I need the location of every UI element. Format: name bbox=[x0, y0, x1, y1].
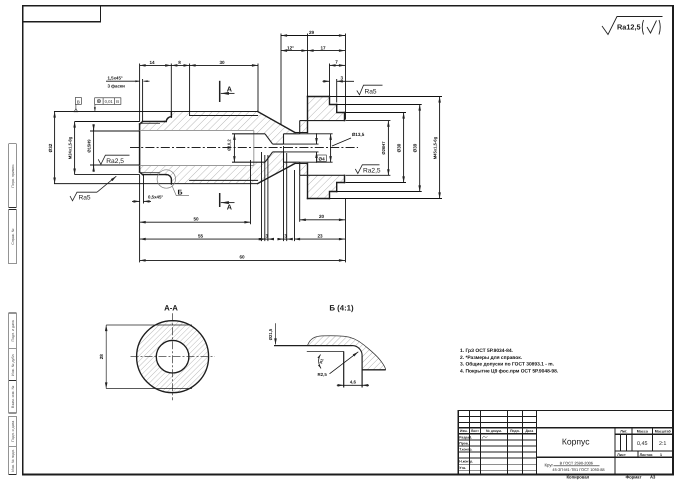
roughness Ra5 left bottom bbox=[70, 176, 116, 201]
datum symbol B bbox=[74, 98, 81, 112]
svg-text:Ø10,2: Ø10,2 bbox=[227, 139, 232, 151]
detail B groove left wall bbox=[343, 351, 345, 387]
svg-text:29: 29 bbox=[309, 30, 315, 35]
groove corner top bbox=[165, 112, 172, 122]
thread OD top bbox=[143, 121, 165, 123]
thread root lines bbox=[140, 124, 160, 173]
svg-text:Ra12,5: Ra12,5 bbox=[617, 23, 641, 32]
detail B hatch region bbox=[308, 336, 386, 370]
dim D15H9 bbox=[93, 124, 95, 171]
svg-text:№ докум.: № докум. bbox=[486, 429, 502, 433]
svg-text:60: 60 bbox=[239, 255, 245, 260]
dim 55 bbox=[140, 238, 266, 240]
svg-text:Подп.: Подп. bbox=[510, 429, 520, 433]
section arrow A top bbox=[220, 81, 235, 102]
left extension lines bbox=[75, 121, 140, 123]
detail B circle bbox=[157, 170, 175, 188]
dimension labels bbox=[48, 30, 438, 260]
cylinder 32 top edge bbox=[55, 111, 258, 113]
svg-text:Ø39: Ø39 bbox=[412, 143, 417, 152]
roughness Ra2,5 right bbox=[355, 165, 379, 174]
title block texts bbox=[460, 429, 533, 433]
section A-A inner circle bbox=[156, 340, 189, 373]
dim 0,5x45 bbox=[132, 200, 140, 202]
dim 14 bbox=[140, 64, 172, 66]
dim D4 bbox=[316, 133, 318, 144]
hole d13.5 bbox=[284, 133, 300, 135]
svg-text:А: А bbox=[227, 202, 232, 211]
svg-text:Ra5: Ra5 bbox=[79, 195, 91, 202]
dim D39 bbox=[419, 105, 421, 192]
section A-A outer circle bbox=[137, 321, 209, 393]
right extension lines bbox=[346, 120, 391, 122]
svg-text:14: 14 bbox=[149, 60, 155, 65]
dim 3 bottom a bbox=[265, 238, 268, 240]
right end face bottom bbox=[344, 175, 346, 182]
flange left face top bbox=[307, 97, 309, 133]
detail B thread root line bbox=[307, 350, 344, 352]
svg-text:Ø26Н7: Ø26Н7 bbox=[381, 141, 386, 155]
svg-text:Взам. инв. №: Взам. инв. № bbox=[11, 386, 15, 408]
step 30 bottom bbox=[337, 183, 345, 192]
svg-text:Подп. и дата: Подп. и дата bbox=[11, 320, 15, 341]
svg-text:Ra2,5: Ra2,5 bbox=[106, 158, 124, 165]
svg-text:45-3П-М1-ТВ1 ГОСТ 1050-88: 45-3П-М1-ТВ1 ГОСТ 1050-88 bbox=[552, 467, 604, 472]
svg-text:Масштаб: Масштаб bbox=[655, 429, 672, 433]
dim 7 (outside arrows) bbox=[330, 64, 346, 66]
section A-A dim 28 bbox=[106, 325, 192, 389]
svg-text:Ø21,5: Ø21,5 bbox=[268, 328, 273, 340]
svg-text:R2,5: R2,5 bbox=[318, 372, 328, 377]
section A-A hatch annulus bbox=[137, 321, 209, 393]
left end face bbox=[139, 124, 141, 172]
step 30 top bbox=[337, 105, 345, 113]
svg-text:А: А bbox=[227, 85, 232, 94]
hatch bottom half bbox=[140, 152, 345, 199]
svg-text:Масса: Масса bbox=[637, 429, 649, 433]
svg-text:В: В bbox=[116, 99, 119, 104]
svg-text:3: 3 bbox=[284, 233, 287, 238]
cone bottom bbox=[258, 164, 295, 184]
groove corner bottom bbox=[166, 175, 171, 184]
outer profile (visible edges) bbox=[55, 97, 345, 199]
svg-text:Б: Б bbox=[178, 190, 183, 197]
svg-text:3: 3 bbox=[341, 76, 344, 81]
dim 3 right top (outside arrows) bbox=[323, 80, 330, 82]
svg-text:4,6: 4,6 bbox=[350, 379, 357, 384]
dim D10,2 bbox=[233, 134, 235, 162]
svg-text:Ø4: Ø4 bbox=[319, 156, 326, 161]
svg-text:Т.контр.: Т.контр. bbox=[459, 448, 472, 452]
step 39 bottom bbox=[330, 192, 337, 199]
svg-text:8: 8 bbox=[178, 60, 181, 65]
dim 29 bbox=[281, 35, 345, 37]
chamfer labels bbox=[108, 75, 164, 199]
svg-text:Утв.: Утв. bbox=[459, 466, 466, 470]
svg-text:М45х1,5-6g: М45х1,5-6g bbox=[433, 136, 438, 159]
counterbore d26 bbox=[300, 120, 345, 122]
svg-text:Разраб.: Разраб. bbox=[459, 435, 472, 439]
svg-text:Ø32: Ø32 bbox=[48, 143, 53, 152]
svg-text:Пров.: Пров. bbox=[459, 441, 469, 445]
svg-text:0,5х45°: 0,5х45° bbox=[148, 195, 163, 200]
d13.5 extension bbox=[300, 133, 333, 135]
dim D30 bbox=[403, 113, 405, 183]
dim D32 bbox=[54, 112, 56, 184]
cylinder 32 bottom edge bbox=[55, 183, 258, 185]
detail B dim 4,6 bbox=[337, 384, 369, 386]
svg-text:3: 3 bbox=[266, 233, 269, 238]
detail B radius R2,5 leader bbox=[330, 352, 359, 374]
section arrow A bottom bbox=[220, 193, 235, 207]
flat line top bbox=[190, 115, 258, 117]
dim 8 bbox=[171, 64, 189, 66]
svg-text:17: 17 bbox=[320, 45, 326, 50]
svg-text:Ra2,5: Ra2,5 bbox=[363, 167, 381, 174]
dimension lines with arrows bbox=[55, 36, 440, 261]
svg-text:Лист: Лист bbox=[471, 429, 479, 433]
bore lines (light) bbox=[140, 131, 254, 166]
neck top bbox=[295, 132, 308, 134]
svg-text:2:1: 2:1 bbox=[659, 441, 667, 447]
detail B radius R1 arrow bbox=[319, 355, 321, 369]
dim M24 bbox=[74, 122, 76, 175]
svg-text:0,01: 0,01 bbox=[105, 99, 114, 104]
chamfer bottom left bbox=[140, 172, 143, 175]
detail B groove right wall bbox=[361, 356, 363, 388]
svg-text:55: 55 bbox=[198, 233, 204, 238]
surface finish general symbol Ra12,5 top right bbox=[602, 17, 663, 35]
extension lines bbox=[75, 34, 442, 263]
svg-text:Ra5: Ra5 bbox=[365, 89, 377, 96]
svg-text:1: 1 bbox=[660, 453, 662, 457]
svg-text:А-А: А-А bbox=[164, 304, 178, 313]
section A-A centerlines bbox=[131, 313, 215, 400]
dim M45 bbox=[439, 97, 441, 199]
funnel cone bbox=[265, 134, 273, 144]
chamfer top left bbox=[140, 122, 143, 125]
svg-text:Подп. и дата: Подп. и дата bbox=[11, 421, 15, 442]
neck bottom bbox=[295, 163, 308, 165]
svg-text:Формат: Формат bbox=[626, 475, 642, 480]
thread OD bottom bbox=[143, 174, 167, 176]
svg-text:Инв. № подл.: Инв. № подл. bbox=[11, 449, 15, 471]
svg-text:30: 30 bbox=[219, 60, 225, 65]
svg-text:Справ. №: Справ. № bbox=[11, 228, 15, 244]
svg-text:1,5х45°: 1,5х45° bbox=[108, 75, 123, 80]
step to d13.5 bbox=[283, 134, 285, 144]
svg-text:28: 28 bbox=[99, 354, 104, 360]
bore d10.2 bbox=[232, 133, 265, 135]
dim 23 bbox=[259, 238, 265, 240]
svg-text:1. ГрЗ ОСТ 5Р.9034-84.: 1. ГрЗ ОСТ 5Р.9034-84. bbox=[460, 348, 514, 354]
svg-text:2. *Размеры для справок.: 2. *Размеры для справок. bbox=[460, 355, 523, 361]
svg-text:Корпус: Корпус bbox=[562, 437, 590, 447]
svg-text:50: 50 bbox=[193, 217, 199, 222]
dim 12deg bbox=[281, 50, 308, 52]
centerline of part bbox=[130, 147, 358, 149]
svg-text:0,45: 0,45 bbox=[637, 441, 648, 447]
detail B dim D21,5 bbox=[275, 323, 277, 344]
svg-text:Инв. № дубл.: Инв. № дубл. bbox=[11, 354, 15, 376]
flat line bottom bbox=[190, 179, 258, 181]
dim D26H7 bbox=[387, 121, 389, 176]
top-left stamp box bbox=[23, 6, 101, 22]
svg-text:В: В bbox=[77, 99, 80, 104]
dim 17 bbox=[308, 50, 346, 52]
svg-text:Копировал: Копировал bbox=[567, 475, 590, 480]
svg-text:Лит.: Лит. bbox=[620, 429, 627, 433]
svg-text:Изм.: Изм. bbox=[460, 429, 468, 433]
flange OD top bbox=[308, 96, 330, 98]
left margin attribute boxes bbox=[9, 144, 17, 475]
svg-text:12°: 12° bbox=[287, 45, 294, 50]
svg-text:23: 23 bbox=[317, 233, 323, 238]
internal holes bbox=[232, 121, 345, 176]
dim D13,5 bbox=[330, 134, 332, 162]
dim 60 bbox=[140, 259, 345, 261]
svg-text:Лист: Лист bbox=[617, 453, 626, 457]
svg-text:7: 7 bbox=[335, 60, 338, 65]
bottom margin texts bbox=[567, 475, 657, 480]
svg-text:М24х1,5-8g: М24х1,5-8g bbox=[67, 136, 72, 159]
dim 20 bbox=[300, 219, 345, 221]
feature control frame bbox=[95, 98, 121, 112]
svg-text:Б (4:1): Б (4:1) bbox=[329, 304, 354, 313]
cone top bbox=[258, 112, 295, 133]
svg-text:Ø15Н9: Ø15Н9 bbox=[87, 139, 92, 153]
roughness Ra5 right top bbox=[357, 85, 383, 95]
dim 50 bbox=[140, 221, 251, 223]
svg-text:Н.контр.: Н.контр. bbox=[459, 460, 473, 464]
hole d4 bbox=[273, 143, 284, 145]
bottom extension lines bbox=[139, 175, 141, 263]
signature mark bbox=[482, 437, 488, 439]
dim 30 bbox=[190, 64, 258, 66]
roughness Ra2,5 left bbox=[98, 155, 129, 164]
hatch top half bbox=[140, 97, 345, 145]
svg-text:В ГОСТ 2590-2006: В ГОСТ 2590-2006 bbox=[560, 461, 593, 466]
step to d26 bbox=[299, 121, 301, 134]
flange left face bottom bbox=[307, 164, 309, 199]
svg-text:20: 20 bbox=[319, 214, 325, 219]
svg-text:А3: А3 bbox=[650, 475, 656, 480]
right end face top bbox=[344, 113, 346, 121]
detail B groove corner radius R2.5 bbox=[353, 346, 363, 356]
box around d4 bbox=[317, 155, 326, 161]
svg-text:Дата: Дата bbox=[525, 429, 533, 433]
technical notes bbox=[460, 348, 559, 374]
svg-text:4. Покрытие Ц9 фос.прм ОСТ 5Р.: 4. Покрытие Ц9 фос.прм ОСТ 5Р.9048-98. bbox=[460, 368, 559, 374]
detail B lower step surface bbox=[362, 369, 386, 371]
flange OD bottom bbox=[308, 198, 330, 200]
detail B outer profile curve bbox=[308, 336, 386, 370]
dim 3 bottom b bbox=[284, 238, 287, 240]
svg-text:3 фаски: 3 фаски bbox=[108, 83, 126, 88]
step 39 top bbox=[330, 97, 337, 105]
svg-text:Ø30: Ø30 bbox=[397, 143, 402, 152]
svg-text:3. Общие допуски по ГОСТ 30893: 3. Общие допуски по ГОСТ 30893.1 - m. bbox=[460, 362, 555, 368]
svg-text:Перв. примен.: Перв. примен. bbox=[11, 164, 15, 188]
detail B thread surface line bbox=[274, 345, 353, 347]
svg-text:Листов: Листов bbox=[640, 453, 654, 457]
svg-text:Ø13,5: Ø13,5 bbox=[352, 132, 365, 137]
